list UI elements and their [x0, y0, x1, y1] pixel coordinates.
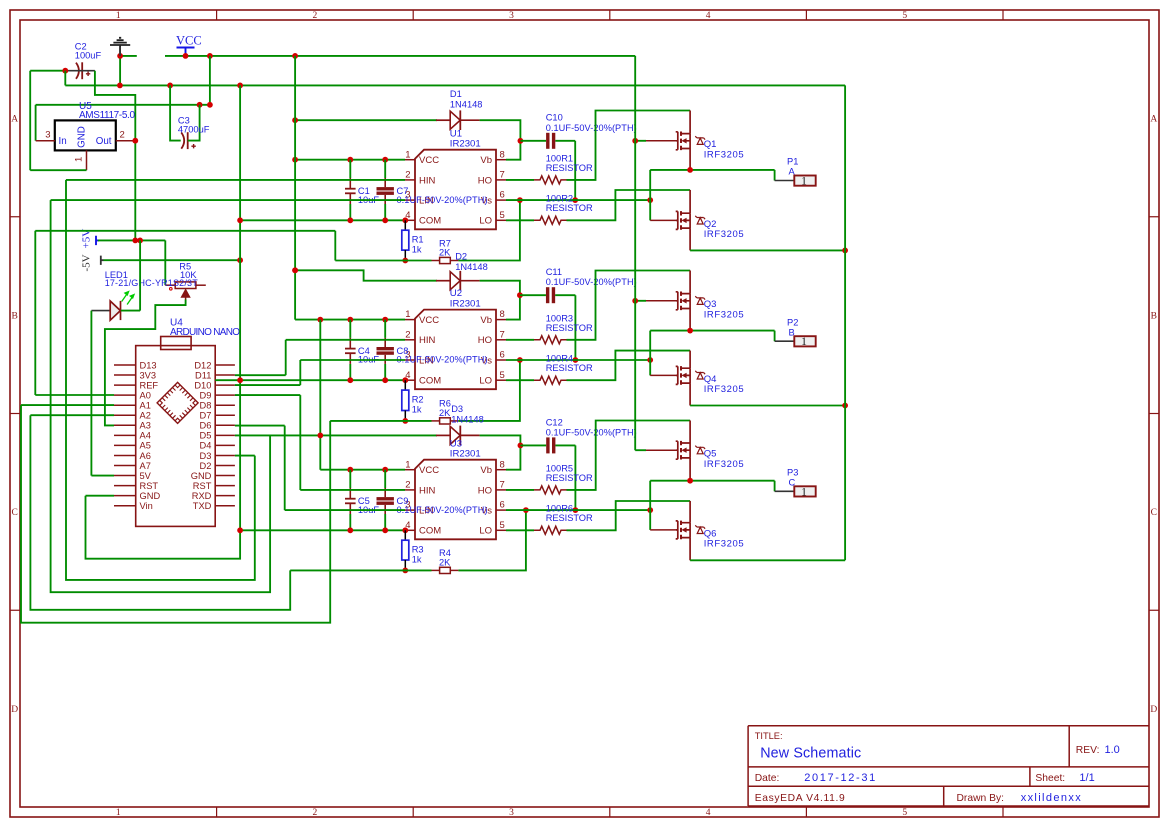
svg-text:8: 8: [500, 309, 505, 320]
svg-text:2K: 2K: [439, 408, 451, 418]
svg-text:6: 6: [500, 500, 505, 511]
connector P2: [774, 331, 776, 342]
wire phase row P3: [650, 480, 774, 482]
svg-text:3V3: 3V3: [140, 370, 157, 380]
svg-text:D2: D2: [200, 461, 212, 471]
wire D9 drop to HIN3: [299, 395, 301, 490]
svg-text:Sheet:: Sheet:: [1035, 773, 1065, 784]
wire GND bus: [239, 85, 241, 530]
svg-text:REF: REF: [140, 380, 159, 390]
wire LED left (black): [91, 310, 120, 312]
pin D8 U4 right: [215, 404, 235, 406]
svg-text:IRF3205: IRF3205: [704, 459, 744, 470]
svg-text:D4: D4: [200, 441, 212, 451]
svg-text:A7: A7: [140, 461, 151, 471]
potentiometer R5: [175, 282, 196, 289]
wire R1 bottom row: [335, 260, 431, 262]
svg-text:6: 6: [500, 350, 505, 361]
capacitor C7 0.1UF: [384, 160, 386, 178]
svg-text:1: 1: [801, 486, 807, 498]
svg-text:5: 5: [902, 11, 907, 21]
wire R2 bottom row: [330, 420, 431, 422]
svg-text:RESISTOR: RESISTOR: [546, 363, 593, 373]
junction: [317, 433, 323, 439]
resistor R3 1k: [404, 530, 406, 540]
svg-text:1N4148: 1N4148: [451, 415, 484, 425]
svg-text:100R4: 100R4: [546, 354, 573, 364]
wire D1 anode: [295, 119, 437, 121]
wire U5 GND row: [30, 169, 86, 171]
svg-text:1: 1: [801, 176, 807, 188]
junction: [137, 238, 143, 244]
svg-text:HIN: HIN: [419, 335, 436, 346]
junction: [517, 292, 523, 298]
pin 3V3 U4 left: [114, 374, 136, 376]
wire HIN1 bracket: [66, 180, 255, 580]
svg-text:COM: COM: [419, 376, 441, 387]
pin RST U4 right: [215, 485, 235, 487]
junction: [347, 217, 353, 223]
svg-text:3: 3: [509, 808, 514, 818]
svg-text:4700uF: 4700uF: [178, 125, 210, 135]
op-amp U2 IR2301 gate driver: [415, 310, 496, 390]
junction: [207, 53, 213, 59]
wire D3 row: [235, 455, 255, 457]
svg-text:3: 3: [45, 130, 50, 141]
pin D10 U4 right: [215, 384, 235, 386]
wire C2 left drop: [29, 71, 31, 171]
junction: [632, 298, 638, 304]
svg-text:1k: 1k: [412, 245, 422, 255]
junction: [317, 317, 323, 323]
pin REF U4 left: [114, 384, 136, 386]
wire C10 to Vs: [574, 141, 576, 200]
pin RXD U4 right: [215, 495, 235, 497]
wire A2 bracket: [30, 415, 290, 610]
pin D5 U4 right: [215, 434, 235, 436]
wire Vs row U2: [506, 359, 650, 361]
junction: [842, 248, 848, 254]
junction: [292, 53, 298, 59]
pin A0 U4 left: [114, 394, 136, 396]
svg-text:R1: R1: [412, 234, 424, 244]
wire COM row U2: [240, 379, 405, 381]
svg-text:1: 1: [405, 459, 410, 470]
wire R6 to Vs riser: [458, 360, 520, 421]
IC U4 ARDUINO NANO: [136, 346, 216, 527]
transistor Q1 IRF3205: [676, 132, 705, 151]
svg-text:REV:: REV:: [1076, 745, 1100, 756]
svg-text:RXD: RXD: [192, 491, 212, 501]
wire Q1 drain stub: [689, 111, 691, 134]
title block: [748, 726, 1149, 806]
wire GND symbol to rail: [119, 56, 121, 86]
svg-text:7: 7: [500, 480, 505, 491]
pin TXD U4 right: [215, 505, 235, 507]
svg-text:5: 5: [500, 520, 505, 531]
svg-text:C: C: [1151, 508, 1157, 518]
svg-text:1: 1: [116, 808, 121, 818]
svg-text:xxlildenxx: xxlildenxx: [1021, 792, 1081, 804]
pin D2 U4 right: [215, 465, 235, 467]
svg-text:P1: P1: [787, 157, 798, 167]
pin GND U4 left: [114, 495, 136, 497]
resistor R2 1k: [404, 380, 406, 390]
wire phase row P1: [650, 169, 774, 171]
junction: [382, 157, 388, 163]
junction: [292, 267, 298, 273]
pin GND U4 right: [215, 475, 235, 477]
capacitor C3: [181, 132, 196, 149]
wire LIN row U3: [285, 509, 405, 511]
svg-text:P2: P2: [787, 317, 798, 327]
capacitor C11 0.1UF bootstrap: [520, 294, 546, 296]
wire A0 net drop: [334, 231, 336, 261]
wire Q5 gate: [635, 449, 646, 451]
pin D11 U4 right: [215, 374, 235, 376]
junction: [573, 357, 579, 363]
svg-text:A: A: [1150, 115, 1157, 125]
wire Q6 gate drop: [649, 481, 651, 530]
junction: [647, 197, 653, 203]
svg-text:C10: C10: [546, 113, 563, 123]
svg-text:0.1UF-50V-20%(PTH): 0.1UF-50V-20%(PTH): [397, 505, 488, 515]
transistor Q2 IRF3205: [676, 211, 705, 230]
svg-text:Drawn By:: Drawn By:: [957, 793, 1005, 804]
junction: [132, 238, 138, 244]
wire VCC rail: [165, 55, 635, 57]
svg-text:D10: D10: [194, 380, 211, 390]
wire LO2 to drain: [567, 351, 691, 381]
junction: [523, 507, 529, 513]
svg-text:1k: 1k: [412, 405, 422, 415]
wire D10 riser to LIN2: [299, 360, 301, 385]
junction: [292, 157, 298, 163]
pin A1 U4 left: [114, 404, 136, 406]
svg-text:C11: C11: [546, 267, 562, 277]
svg-text:0.1UF-50V-20%(PTH): 0.1UF-50V-20%(PTH): [546, 123, 637, 133]
wire GND pin row: [86, 495, 115, 497]
transistor Q3 IRF3205: [676, 292, 705, 311]
wire HIN row U2: [286, 339, 405, 341]
wire HO3 to drain: [567, 421, 691, 490]
svg-text:RST: RST: [193, 481, 212, 491]
junction: [382, 317, 388, 323]
svg-text:5: 5: [902, 808, 907, 818]
resistor 100R HO3: [506, 489, 534, 491]
pin D6 U4 right: [215, 424, 235, 426]
wire -5V row: [104, 259, 241, 261]
pin A7 U4 left: [114, 465, 136, 467]
svg-text:1: 1: [801, 336, 807, 348]
junction: [117, 83, 123, 89]
pin 2 U5: [116, 140, 136, 142]
svg-text:100uF: 100uF: [75, 51, 102, 61]
svg-text:IR2301: IR2301: [450, 139, 481, 150]
wire Q4 source: [689, 383, 691, 405]
junction: [647, 507, 653, 513]
svg-text:0.1UF-50V-20%(PTH): 0.1UF-50V-20%(PTH): [546, 427, 637, 437]
junction: [207, 102, 213, 108]
wire LIN row U2: [300, 359, 405, 361]
wire R3 bottom row: [290, 569, 431, 571]
wire LIN1 bracket: [51, 200, 271, 592]
junction: [292, 117, 298, 123]
svg-text:2K: 2K: [439, 248, 451, 258]
resistor R6 2K: [432, 420, 440, 422]
svg-text:1: 1: [74, 157, 85, 162]
svg-text:+5V: +5V: [81, 229, 93, 249]
wire D2 cathode to Vb: [480, 281, 520, 320]
wire Q5 source: [689, 458, 691, 481]
svg-text:2017-12-31: 2017-12-31: [804, 772, 875, 784]
svg-text:C: C: [12, 508, 18, 518]
U4 chip diamond: [157, 382, 198, 423]
junction: [517, 197, 523, 203]
svg-text:D7: D7: [200, 411, 212, 421]
svg-text:4: 4: [706, 808, 711, 818]
wire Q2 source: [689, 228, 691, 250]
wire gate bus: [634, 56, 636, 450]
svg-text:R2: R2: [412, 394, 424, 404]
junction: [292, 267, 298, 273]
junction: [347, 377, 353, 383]
wire COM2 stub: [215, 379, 240, 381]
svg-text:100R5: 100R5: [546, 463, 573, 473]
svg-text:New Schematic: New Schematic: [760, 745, 861, 761]
wire A0 row: [35, 394, 114, 396]
junction: [117, 53, 123, 59]
svg-text:2: 2: [405, 329, 410, 340]
wire VCC row U1: [295, 159, 405, 161]
svg-text:Date:: Date:: [755, 773, 780, 784]
pin D13 U4 left: [114, 364, 136, 366]
svg-text:RESISTOR: RESISTOR: [546, 203, 593, 213]
junction: [842, 403, 848, 409]
wire C3 left: [170, 85, 181, 140]
junction: [518, 443, 524, 449]
junction: [382, 527, 388, 533]
svg-text:RST: RST: [140, 481, 159, 491]
svg-text:2: 2: [405, 480, 410, 491]
op-amp U1 IR2301 gate driver: [415, 150, 496, 230]
wire Vs row U1: [506, 199, 650, 201]
svg-text:HO: HO: [478, 335, 492, 346]
svg-text:100R1: 100R1: [546, 153, 573, 163]
junction: [687, 167, 693, 173]
svg-text:A1: A1: [140, 401, 151, 411]
wire Q1 source: [689, 149, 691, 170]
wire Q1 gate: [635, 140, 646, 142]
pin D3 U4 right: [215, 454, 235, 456]
wire R4 to Vs riser: [458, 510, 526, 570]
capacitor C10 0.1UF bootstrap: [520, 140, 546, 142]
svg-text:A4: A4: [140, 431, 151, 441]
wire D9 row: [235, 394, 300, 396]
wire LED cathode up: [139, 240, 141, 310]
wire LO3 to drain: [567, 501, 691, 530]
connector P3: [774, 481, 776, 492]
wire Q3 gate: [635, 300, 646, 302]
svg-text:5: 5: [500, 210, 505, 221]
wire Q6 source to GND bus: [690, 559, 845, 561]
svg-text:-5V: -5V: [81, 254, 93, 271]
svg-text:D: D: [11, 705, 18, 715]
pin 5V U4 left: [114, 475, 136, 477]
wire D3 cathode to Vb: [480, 435, 521, 469]
junction: [167, 83, 173, 89]
svg-text:A5: A5: [140, 441, 151, 451]
svg-text:D5: D5: [200, 431, 212, 441]
wire COM row U3: [240, 529, 405, 531]
junction: [237, 377, 243, 383]
svg-text:IRF3205: IRF3205: [704, 384, 744, 395]
svg-text:B: B: [789, 327, 795, 337]
wire VCC2 to VCC3 drop: [319, 320, 321, 470]
svg-text:A: A: [789, 167, 796, 177]
resistor 100R HO1: [506, 179, 534, 181]
svg-text:HO: HO: [478, 175, 492, 186]
wire C11 to Vs: [574, 295, 576, 360]
svg-text:D8: D8: [200, 401, 212, 411]
svg-text:D13: D13: [140, 360, 157, 370]
junction: [382, 467, 388, 473]
wire Q4 gate drop: [649, 331, 651, 376]
svg-text:7: 7: [500, 170, 505, 181]
wire phase row P2: [650, 330, 774, 332]
junction: [402, 377, 408, 383]
svg-text:17-21/GHC-YR1S2/3T: 17-21/GHC-YR1S2/3T: [105, 278, 199, 288]
pin RST U4 left: [114, 485, 136, 487]
wire GND stem link: [119, 47, 121, 56]
wire HIN row U1: [66, 179, 405, 181]
wire C2 left (black): [65, 70, 95, 72]
wire C12 to Vs: [574, 445, 576, 510]
wire C3 right: [188, 105, 200, 141]
junction: [402, 258, 408, 264]
wire +5V row: [98, 239, 165, 241]
svg-text:2K: 2K: [439, 558, 451, 568]
wire VCC to U5 rail: [209, 56, 211, 105]
svg-text:2: 2: [120, 130, 125, 141]
svg-text:COM: COM: [419, 526, 441, 537]
capacitor C12 0.1UF bootstrap: [520, 444, 546, 446]
wire HIN row U3: [300, 489, 405, 491]
wire LED right: [121, 310, 140, 312]
svg-text:B: B: [1151, 311, 1157, 321]
svg-text:RESISTOR: RESISTOR: [546, 163, 593, 173]
wire GND rail: [65, 84, 845, 86]
svg-text:HIN: HIN: [419, 485, 436, 496]
svg-text:C12: C12: [546, 417, 563, 427]
junction: [237, 527, 243, 533]
svg-text:Vin: Vin: [140, 501, 153, 511]
junction: [183, 53, 189, 59]
pin Vin U4 left: [114, 505, 136, 507]
diode D3 1N4148: [436, 434, 450, 436]
junction: [237, 83, 243, 89]
junction: [402, 568, 408, 574]
junction: [347, 157, 353, 163]
junction: [382, 217, 388, 223]
wire A2 row: [30, 414, 114, 416]
wire right GND bus: [844, 85, 846, 560]
pin A4 U4 left: [114, 434, 136, 436]
svg-text:2: 2: [313, 808, 318, 818]
pin A5 U4 left: [114, 444, 136, 446]
svg-text:2: 2: [405, 170, 410, 181]
svg-text:In: In: [59, 136, 67, 147]
wire Q4 source to GND bus: [690, 405, 845, 407]
svg-text:Out: Out: [96, 136, 112, 147]
svg-text:IRF3205: IRF3205: [704, 539, 744, 550]
wire C2 left to GND rail: [64, 71, 66, 86]
svg-text:D: D: [1150, 705, 1157, 715]
wire +5V to R5: [164, 240, 166, 285]
junction: [237, 217, 243, 223]
junction: [347, 527, 353, 533]
resistor R7 2K: [432, 260, 440, 262]
svg-text:3: 3: [509, 11, 514, 21]
capacitor C2: [76, 62, 90, 79]
svg-text:ARDUINO NANO: ARDUINO NANO: [170, 327, 240, 338]
junction: [382, 377, 388, 383]
wire Q2 drain stub: [689, 190, 691, 213]
wire LIN row U1: [51, 199, 405, 201]
wire D11 riser to HIN2: [285, 340, 287, 375]
svg-text:2: 2: [313, 11, 318, 21]
wire A1 bracket: [21, 405, 330, 623]
svg-text:GND: GND: [140, 491, 161, 501]
svg-text:Vb: Vb: [480, 155, 492, 166]
svg-text:Vb: Vb: [480, 315, 492, 326]
svg-text:GND: GND: [191, 471, 212, 481]
pin D9 U4 right: [215, 394, 235, 396]
wire C2 right to 5V net: [95, 71, 135, 241]
svg-text:1: 1: [405, 149, 410, 160]
svg-text:Vb: Vb: [480, 465, 492, 476]
svg-text:4: 4: [706, 11, 711, 21]
capacitor C8 0.1UF: [384, 320, 386, 338]
svg-text:0.1UF-50V-20%(PTH): 0.1UF-50V-20%(PTH): [397, 355, 488, 365]
pin D12 U4 right: [215, 364, 235, 366]
svg-text:IRF3205: IRF3205: [704, 309, 744, 320]
ground: [110, 38, 130, 56]
svg-text:5: 5: [500, 370, 505, 381]
junction: [197, 102, 203, 108]
svg-text:D2: D2: [455, 252, 467, 262]
junction: [62, 68, 68, 74]
svg-text:A0: A0: [140, 390, 151, 400]
junction: [632, 138, 638, 144]
junction: [132, 138, 138, 144]
wire LO1 to drain: [567, 190, 691, 220]
pin D4 U4 right: [215, 444, 235, 446]
junction: [517, 357, 523, 363]
svg-text:LO: LO: [479, 376, 492, 387]
wire D2 anode: [295, 270, 437, 280]
svg-text:VCC: VCC: [419, 155, 439, 166]
svg-text:8: 8: [500, 459, 505, 470]
svg-text:TITLE:: TITLE:: [755, 731, 783, 741]
wire R5 wiper to A3: [105, 300, 186, 426]
wire Q6 source: [689, 538, 691, 561]
svg-text:7: 7: [500, 329, 505, 340]
junction: [687, 328, 693, 334]
svg-text:VCC: VCC: [419, 315, 439, 326]
svg-text:RESISTOR: RESISTOR: [546, 323, 593, 333]
pin A3 U4 left: [114, 424, 136, 426]
